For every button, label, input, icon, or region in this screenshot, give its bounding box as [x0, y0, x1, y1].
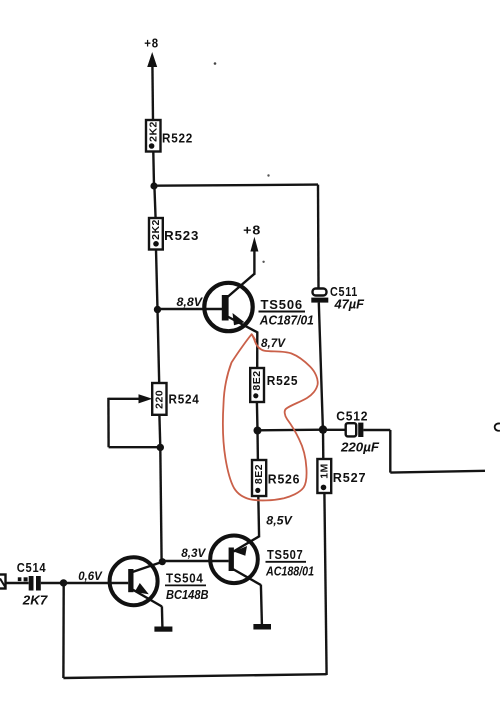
wire R522 to node — [152, 152, 155, 187]
transistor TS504 — [110, 557, 158, 605]
resistor R526 — [256, 431, 259, 461]
svg-text:1M: 1M — [318, 463, 330, 479]
supply +8 arrow (top) — [147, 52, 157, 67]
dots before C514 — [18, 577, 22, 581]
node (TS504 collector / TS507 base) — [159, 558, 166, 565]
wire wiper down — [107, 398, 110, 447]
svg-text:R522: R522 — [162, 132, 193, 146]
svg-text:8E2: 8E2 — [253, 464, 265, 484]
transistor TS506 — [204, 283, 252, 331]
wire R524 to node — [158, 415, 161, 448]
wire node to TS504 base — [64, 582, 129, 584]
wire R525 to node — [256, 402, 259, 431]
resistor R527 — [322, 430, 325, 460]
node (C511/R527/C512 junction) — [319, 425, 327, 433]
wire R523 to node 8,8V — [156, 250, 158, 310]
wire node to C512 — [323, 429, 346, 431]
wire output step down — [389, 430, 391, 473]
wire C512 output right — [363, 429, 390, 431]
wire R524 wiper arrow — [108, 398, 142, 400]
wire TS504 emitter to ground — [161, 606, 164, 627]
ground (TS507) — [253, 624, 271, 630]
wire node to node C512 — [258, 429, 324, 432]
capacitor C511 — [313, 289, 327, 296]
partial label at right edge — [495, 423, 500, 430]
svg-text:2K2: 2K2 — [150, 219, 162, 240]
node (R525/R526/C512 junction) — [254, 427, 262, 435]
transistor TS507 — [210, 536, 258, 584]
node (junction R522 / top rail) — [150, 182, 157, 189]
svg-text:2K7: 2K7 — [22, 594, 49, 608]
speck artifacts — [214, 62, 217, 65]
svg-text:R527: R527 — [333, 471, 367, 485]
svg-text:47µF: 47µF — [333, 298, 364, 312]
wire node to TS507 base — [162, 560, 229, 562]
node (R524 bottom junction) — [157, 444, 164, 451]
wire rail R522node to R523 — [154, 186, 155, 219]
capacitor C514 — [29, 576, 34, 591]
svg-text:2K2: 2K2 — [147, 121, 159, 142]
wire right rail down to C511 — [317, 185, 320, 289]
svg-text:+8: +8 — [243, 224, 261, 238]
svg-text:TS507: TS507 — [267, 548, 304, 562]
red annotation loop — [223, 334, 318, 500]
svg-text:C514: C514 — [17, 561, 47, 575]
svg-text:AC188/01: AC188/01 — [265, 564, 314, 578]
capacitor C512 — [346, 423, 357, 436]
wire R526 to TS507 emitter — [257, 496, 260, 537]
node (input junction) — [60, 579, 67, 586]
wire output to right — [390, 471, 485, 473]
wire R527 to bottom rail — [324, 493, 326, 675]
wire +8 to R522 — [151, 64, 154, 121]
svg-text:+8: +8 — [144, 36, 159, 50]
svg-text:8,8V: 8,8V — [177, 295, 204, 309]
resistor R524 (with wiper arrow) — [152, 383, 166, 415]
svg-text:8,3V: 8,3V — [181, 546, 206, 560]
svg-text:AC187/01: AC187/01 — [259, 314, 314, 328]
wire C514 to node — [41, 582, 64, 584]
svg-text:R525: R525 — [267, 374, 299, 388]
resistor R523 — [149, 218, 163, 250]
svg-text:8E2: 8E2 — [251, 370, 263, 390]
wire bottom rail — [63, 674, 326, 678]
wire TS506 emitter to R525 — [256, 332, 258, 369]
wire node down left rail — [62, 583, 65, 678]
svg-text:BC148B: BC148B — [166, 588, 209, 602]
wire top rail to right — [154, 185, 318, 186]
svg-text:TS504: TS504 — [166, 572, 204, 586]
wire TS507 collector to ground — [261, 585, 262, 625]
svg-text:C512: C512 — [336, 410, 368, 424]
input connector (left edge, partial) — [0, 575, 6, 589]
wire rail down to TS504 collector node — [160, 447, 161, 561]
svg-text:8,7V: 8,7V — [261, 336, 286, 350]
wire base TS506 — [158, 308, 223, 310]
wire C511 to node C512 — [319, 303, 323, 430]
wire wiper to rail — [109, 446, 161, 448]
svg-text:220: 220 — [153, 390, 165, 409]
svg-text:R526: R526 — [268, 473, 301, 487]
resistor R522 — [146, 120, 161, 152]
svg-text:R524: R524 — [169, 393, 200, 407]
svg-text:R523: R523 — [164, 229, 199, 243]
svg-text:8,5V: 8,5V — [266, 514, 293, 528]
svg-text:220µF: 220µF — [340, 441, 379, 455]
node (8,8V junction) — [154, 306, 161, 313]
svg-text:0,6V: 0,6V — [78, 569, 102, 583]
wire connector to C514 — [6, 582, 29, 584]
ground (TS504) — [154, 627, 172, 632]
wire node 8,8V to R524 — [158, 310, 160, 384]
svg-text:TS506: TS506 — [261, 298, 304, 312]
resistor R525 — [250, 368, 264, 402]
